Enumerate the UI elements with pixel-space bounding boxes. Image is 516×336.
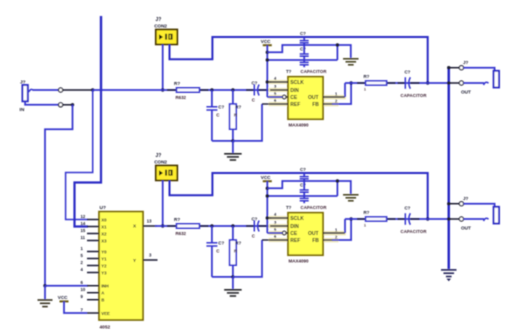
resistor R5 lead bottom	[232, 265, 234, 277]
svg-text:OUT: OUT	[308, 231, 319, 237]
junction input / shunt cap	[210, 88, 213, 91]
svg-text:C?: C?	[300, 167, 306, 172]
resistor R6 (series output)	[366, 217, 387, 221]
svg-text:CAPACITOR: CAPACITOR	[401, 229, 428, 234]
resistor R4 leads	[167, 225, 177, 227]
IC U1 body (MAX4090)	[288, 77, 323, 120]
svg-text:1: 1	[364, 224, 366, 228]
junction bypass link	[336, 179, 339, 182]
wire bypass link	[336, 181, 338, 196]
svg-text:4052: 4052	[100, 325, 111, 331]
wire VCC stem	[266, 45, 268, 97]
svg-text:CAPACITOR: CAPACITOR	[301, 69, 328, 74]
svg-text:U?: U?	[100, 205, 106, 211]
wire output net	[345, 218, 449, 220]
junction output / long bus	[447, 217, 450, 220]
wire VCC to VEE pin	[64, 301, 87, 313]
svg-text:R632: R632	[176, 231, 187, 236]
IC U2 pin halos	[269, 216, 289, 220]
resistor R1	[177, 88, 200, 92]
junction output / long bus	[447, 81, 450, 84]
junction rail / output wire	[426, 81, 429, 84]
connector J3 jack body	[494, 71, 499, 88]
IC U1 left pin stubs	[270, 81, 288, 83]
wire output net	[345, 82, 449, 84]
svg-text:J?: J?	[463, 60, 469, 65]
capacitor C7 lead top	[211, 226, 213, 243]
ground (shunt network)	[224, 153, 242, 155]
svg-text:J?: J?	[463, 196, 469, 201]
wire lower bypass	[267, 59, 337, 61]
wire J2 pin1 to input net	[162, 44, 164, 90]
long vertical bus wire (output ground bus)	[448, 68, 451, 269]
IC U1 OUT pin	[323, 96, 345, 98]
svg-text:X2: X2	[101, 232, 107, 237]
svg-text:OUT: OUT	[461, 90, 471, 95]
ground (bypass)	[343, 58, 359, 60]
J1 sleeve ring	[59, 103, 63, 107]
J1 tip ring	[59, 88, 63, 92]
junction long bus / J3 sleeve	[447, 66, 450, 69]
junction bypass link	[336, 43, 339, 46]
ground (input sleeve)	[38, 299, 53, 301]
wire J1 sleeve	[25, 101, 58, 105]
wire bypass link	[336, 45, 338, 60]
svg-text:C?: C?	[300, 47, 306, 52]
IC U3 left pin stubs	[87, 219, 99, 221]
resistor R5 (shunt)	[230, 240, 237, 265]
svg-text:12: 12	[81, 214, 86, 219]
svg-text:Y1: Y1	[101, 257, 107, 262]
svg-text:C?: C?	[218, 241, 224, 246]
IC U1 FB pin	[323, 103, 333, 105]
J5 tip pin ring	[459, 217, 463, 221]
svg-text:C?: C?	[300, 183, 306, 188]
wire J4 pin2 to top rail	[170, 173, 428, 219]
wire J5 sleeve to body	[464, 204, 495, 207]
svg-text:15: 15	[81, 228, 86, 233]
capacitor C8 leads	[246, 225, 254, 227]
resistor R3 (series output)	[366, 81, 387, 85]
ground (bypass)	[343, 194, 359, 196]
IC U2 left pin stubs	[270, 217, 288, 219]
wire OUT up to output net	[344, 219, 346, 233]
capacitor C2 leads	[246, 89, 254, 91]
wire to left ground	[44, 286, 46, 299]
resistor R2 lead bottom	[232, 129, 234, 141]
svg-text:Y2: Y2	[101, 264, 107, 269]
capacitor C7 (shunt)	[206, 242, 217, 244]
junction FB/output	[349, 81, 352, 84]
J5 sleeve pin ring	[459, 202, 463, 206]
ground (output bus)	[441, 269, 457, 271]
svg-text:A: A	[101, 291, 104, 296]
wire bus down to U3 X1	[75, 90, 102, 227]
junction lower bypass	[266, 194, 269, 197]
wire to ground	[232, 277, 234, 289]
capacitor C1 lead top	[211, 90, 213, 107]
wire SCLK/CE from VCC stem	[266, 216, 269, 219]
wire input net	[163, 225, 270, 227]
connector J5 sleeve wire	[449, 203, 460, 205]
svg-text:REF: REF	[290, 102, 300, 108]
capacitor C11	[300, 197, 309, 199]
IC U2 FB pin	[323, 239, 333, 241]
wire OUT up to output net	[344, 83, 346, 97]
svg-text:13: 13	[147, 219, 152, 224]
wire J5 tip	[464, 218, 485, 220]
junction INH net	[43, 284, 46, 287]
resistor R3 leads	[357, 82, 366, 84]
wire to ground	[232, 141, 234, 153]
ground (shunt network)	[224, 289, 242, 291]
svg-text:R?: R?	[364, 74, 370, 79]
svg-text:Y3: Y3	[101, 271, 107, 276]
svg-text:VCC: VCC	[261, 39, 271, 44]
resistor R6 leads	[357, 218, 366, 220]
svg-text:T?: T?	[286, 69, 292, 74]
wire VCC stem	[266, 181, 268, 233]
svg-text:CON2: CON2	[154, 24, 167, 29]
capacitor C6 (series output)	[404, 77, 406, 89]
capacitor C1 lead bottom	[211, 110, 213, 141]
long vertical stub wire from top	[100, 16, 102, 90]
wire J3 tip	[464, 82, 485, 84]
svg-text:X1: X1	[101, 225, 107, 230]
svg-text:R?: R?	[235, 105, 241, 110]
svg-text:VEE: VEE	[101, 311, 110, 316]
IC U2 body (MAX4090)	[288, 213, 323, 256]
capacitor C8 (series input)	[253, 221, 255, 232]
capacitor C6 leads	[398, 82, 406, 84]
J3 tip wire	[449, 82, 460, 84]
wire tip lead	[63, 89, 93, 91]
wire J3 sleeve to body	[464, 68, 495, 71]
svg-text:C?: C?	[405, 206, 411, 211]
svg-text:R?: R?	[364, 210, 370, 215]
svg-text:CAPACITOR: CAPACITOR	[401, 93, 428, 98]
wire tip to input net	[93, 89, 163, 91]
svg-text:C?: C?	[218, 105, 224, 110]
svg-text:INH: INH	[101, 284, 108, 289]
svg-text:VCC: VCC	[261, 175, 271, 180]
junction input / shunt resistor	[231, 88, 234, 91]
svg-text:R632: R632	[176, 95, 187, 100]
svg-text:Y0: Y0	[101, 250, 107, 255]
junction long bus / J5 sleeve	[447, 202, 450, 205]
junction J4 pin1 / input wire	[161, 224, 164, 227]
svg-text:C?: C?	[252, 216, 258, 221]
svg-text:FB: FB	[312, 102, 319, 108]
junction J2 pin1 / input wire	[161, 88, 164, 91]
svg-text:J?: J?	[156, 17, 162, 23]
junction tip / mux feed	[91, 88, 94, 91]
svg-text:SCLK: SCLK	[290, 216, 304, 222]
svg-text:C?: C?	[405, 70, 411, 75]
wire REF to ground bus	[233, 104, 262, 141]
wire X output to input net	[155, 225, 163, 227]
svg-text:DIN: DIN	[290, 224, 299, 230]
IC U1 pin halos	[269, 80, 289, 84]
svg-text:R?: R?	[235, 241, 241, 246]
IC U2 OUT pin	[323, 232, 345, 234]
resistor R5 lead top	[232, 226, 234, 240]
wire lower bypass	[267, 195, 337, 197]
svg-text:OUT: OUT	[308, 95, 319, 101]
wire FB to output net	[332, 83, 351, 104]
wire SCLK/CE from VCC stem	[266, 80, 269, 83]
junction rail / output wire	[426, 217, 429, 220]
J3 tip pin ring	[459, 81, 463, 85]
wire shunt ground bus	[212, 140, 233, 142]
svg-text:CE: CE	[290, 95, 298, 101]
junction input / shunt resistor	[231, 224, 234, 227]
svg-text:CE: CE	[290, 231, 298, 237]
junction sleeve	[71, 103, 74, 106]
IC U2 CE bubble	[282, 231, 286, 235]
svg-text:R?: R?	[174, 81, 180, 86]
svg-text:MAX4090: MAX4090	[289, 122, 310, 127]
svg-text:CON2: CON2	[154, 160, 167, 165]
junction VCC branch	[266, 187, 269, 190]
junction shunt ground	[231, 275, 234, 278]
svg-text:X3: X3	[101, 239, 107, 244]
capacitor C12 leads	[398, 218, 406, 220]
wire REF to ground bus	[233, 240, 262, 277]
svg-text:MAX4090: MAX4090	[289, 258, 310, 263]
capacitor C12 (series output)	[404, 213, 406, 225]
svg-text:T?: T?	[286, 205, 292, 210]
junction VCC branch	[266, 51, 269, 54]
svg-text:X0: X0	[101, 218, 107, 223]
svg-text:REF: REF	[290, 238, 300, 244]
svg-text:11: 11	[81, 235, 86, 240]
capacitor C2 (series input)	[253, 85, 255, 96]
capacitor C1 (shunt)	[206, 106, 217, 108]
svg-text:1: 1	[364, 88, 366, 92]
wire to U3 INH pin	[45, 285, 88, 287]
svg-text:SCLK: SCLK	[290, 80, 304, 86]
J5 tip wire	[449, 218, 460, 220]
svg-text:FB: FB	[312, 238, 319, 244]
wire VCC to bypass rail	[267, 45, 351, 58]
svg-text:R?: R?	[174, 217, 180, 222]
IC U3 pin Y (3)	[143, 259, 158, 261]
IC U1 CE bubble	[282, 95, 286, 99]
wire shunt ground bus	[212, 276, 233, 278]
wire VCC to bypass rail	[267, 181, 351, 194]
junction FB/output	[349, 217, 352, 220]
svg-text:C?: C?	[252, 80, 258, 85]
resistor R4	[177, 224, 200, 228]
J3 sleeve pin ring	[459, 66, 463, 70]
junction lower bypass	[266, 58, 269, 61]
wire FB to output net	[332, 219, 351, 240]
svg-text:DIN: DIN	[290, 88, 299, 94]
wire sleeve lead	[63, 104, 73, 106]
svg-text:C?: C?	[300, 31, 306, 36]
IC U3 pin X (13)	[143, 225, 157, 227]
svg-text:14: 14	[81, 221, 86, 226]
resistor R1 leads	[167, 89, 177, 91]
connector J5 jack body	[494, 207, 499, 224]
wire J1 tip	[33, 89, 59, 91]
wire sleeve down to ground/INH	[45, 105, 73, 286]
capacitor C5	[300, 61, 309, 63]
svg-text:J?: J?	[156, 153, 162, 159]
wire input net	[163, 89, 270, 91]
svg-text:B: B	[101, 298, 104, 303]
wire J4 pin1 to input net	[162, 180, 164, 226]
svg-text:VCC: VCC	[58, 295, 68, 300]
junction shunt ground	[231, 139, 234, 142]
capacitor C7 lead bottom	[211, 246, 213, 277]
resistor R2 (shunt)	[230, 104, 237, 129]
connector J3 sleeve wire	[449, 67, 460, 69]
wire J2 pin2 to top rail	[170, 37, 428, 83]
svg-text:IN: IN	[20, 107, 25, 113]
resistor R2 lead top	[232, 90, 234, 104]
svg-text:OUT: OUT	[461, 226, 471, 231]
junction input / shunt cap	[210, 224, 213, 227]
IC U3 body (4052)	[99, 212, 143, 320]
svg-text:10: 10	[81, 287, 86, 292]
wire tip signal down to U3 X0	[66, 90, 93, 220]
svg-text:CAPACITOR: CAPACITOR	[301, 205, 328, 210]
